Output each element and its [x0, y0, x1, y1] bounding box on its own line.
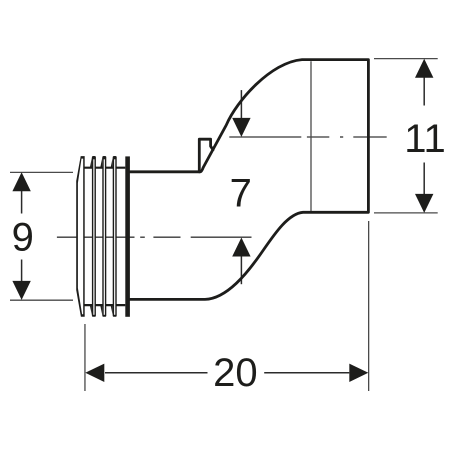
- svg-text:9: 9: [12, 216, 34, 260]
- svg-text:11: 11: [404, 117, 446, 161]
- svg-text:7: 7: [230, 172, 252, 216]
- svg-text:20: 20: [213, 351, 258, 395]
